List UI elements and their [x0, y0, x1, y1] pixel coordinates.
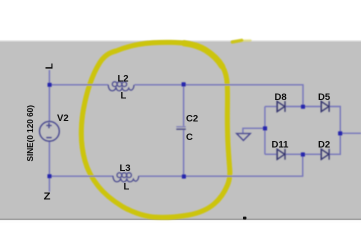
junction D8-D5	[301, 105, 305, 109]
junction bottom-left	[47, 174, 51, 178]
bottom window edge	[0, 219, 361, 221]
svg-text:D11: D11	[272, 139, 290, 150]
diode D11	[277, 149, 285, 160]
node Z label	[44, 191, 51, 202]
capacitor C2	[176, 127, 186, 129]
inductor L2	[108, 82, 134, 91]
wire bottom (Z net, y=176.2)	[49, 154, 302, 176]
wire stub down to node Z	[48, 176, 50, 192]
ground	[237, 134, 251, 141]
junction top-left	[48, 83, 52, 87]
svg-text:D8: D8	[275, 92, 287, 103]
svg-text:SINE(0 120 60): SINE(0 120 60)	[26, 105, 35, 162]
junction C2 bottom	[182, 174, 186, 178]
svg-text:C: C	[186, 132, 193, 143]
svg-text:L2: L2	[118, 74, 129, 85]
svg-text:D5: D5	[318, 92, 331, 103]
svg-text:V2: V2	[57, 113, 69, 124]
small dark speck at bottom edge	[243, 217, 246, 220]
wire bridge bottom row	[265, 153, 277, 155]
svg-text:Z: Z	[44, 191, 51, 202]
svg-text:C2: C2	[186, 113, 198, 124]
junction C2 top	[182, 82, 186, 86]
junction ground tap	[263, 126, 267, 130]
diode D2	[321, 149, 329, 160]
wire bridge left vertical	[264, 107, 266, 155]
wire V2 bottom lead	[48, 141, 50, 176]
junction right output	[338, 131, 342, 135]
annotation: yellow highlighter loop	[81, 40, 250, 217]
wire ground tap	[243, 128, 265, 133]
svg-text:L: L	[45, 63, 56, 69]
junction D11-D2	[301, 152, 305, 156]
wire top (L net, y=84.8)	[49, 85, 303, 107]
svg-text:D2: D2	[318, 139, 330, 150]
annotation: thicker pen pressure on upper-right of loop	[184, 43, 222, 66]
wire capacitor branch	[183, 85, 185, 176]
annotation: highlighter tail dash top-right	[232, 40, 241, 42]
svg-text:L: L	[124, 182, 130, 193]
wire bridge top row	[265, 106, 277, 108]
wire V2 top lead	[48, 85, 50, 122]
inductor L3	[113, 173, 139, 182]
diode D8	[277, 101, 285, 112]
diode D5	[321, 101, 329, 112]
voltage source V2	[40, 121, 60, 141]
svg-text:L: L	[121, 91, 127, 102]
svg-text:L3: L3	[120, 163, 131, 174]
wire right output to edge	[340, 132, 361, 134]
wire stub up to node L	[48, 70, 50, 85]
